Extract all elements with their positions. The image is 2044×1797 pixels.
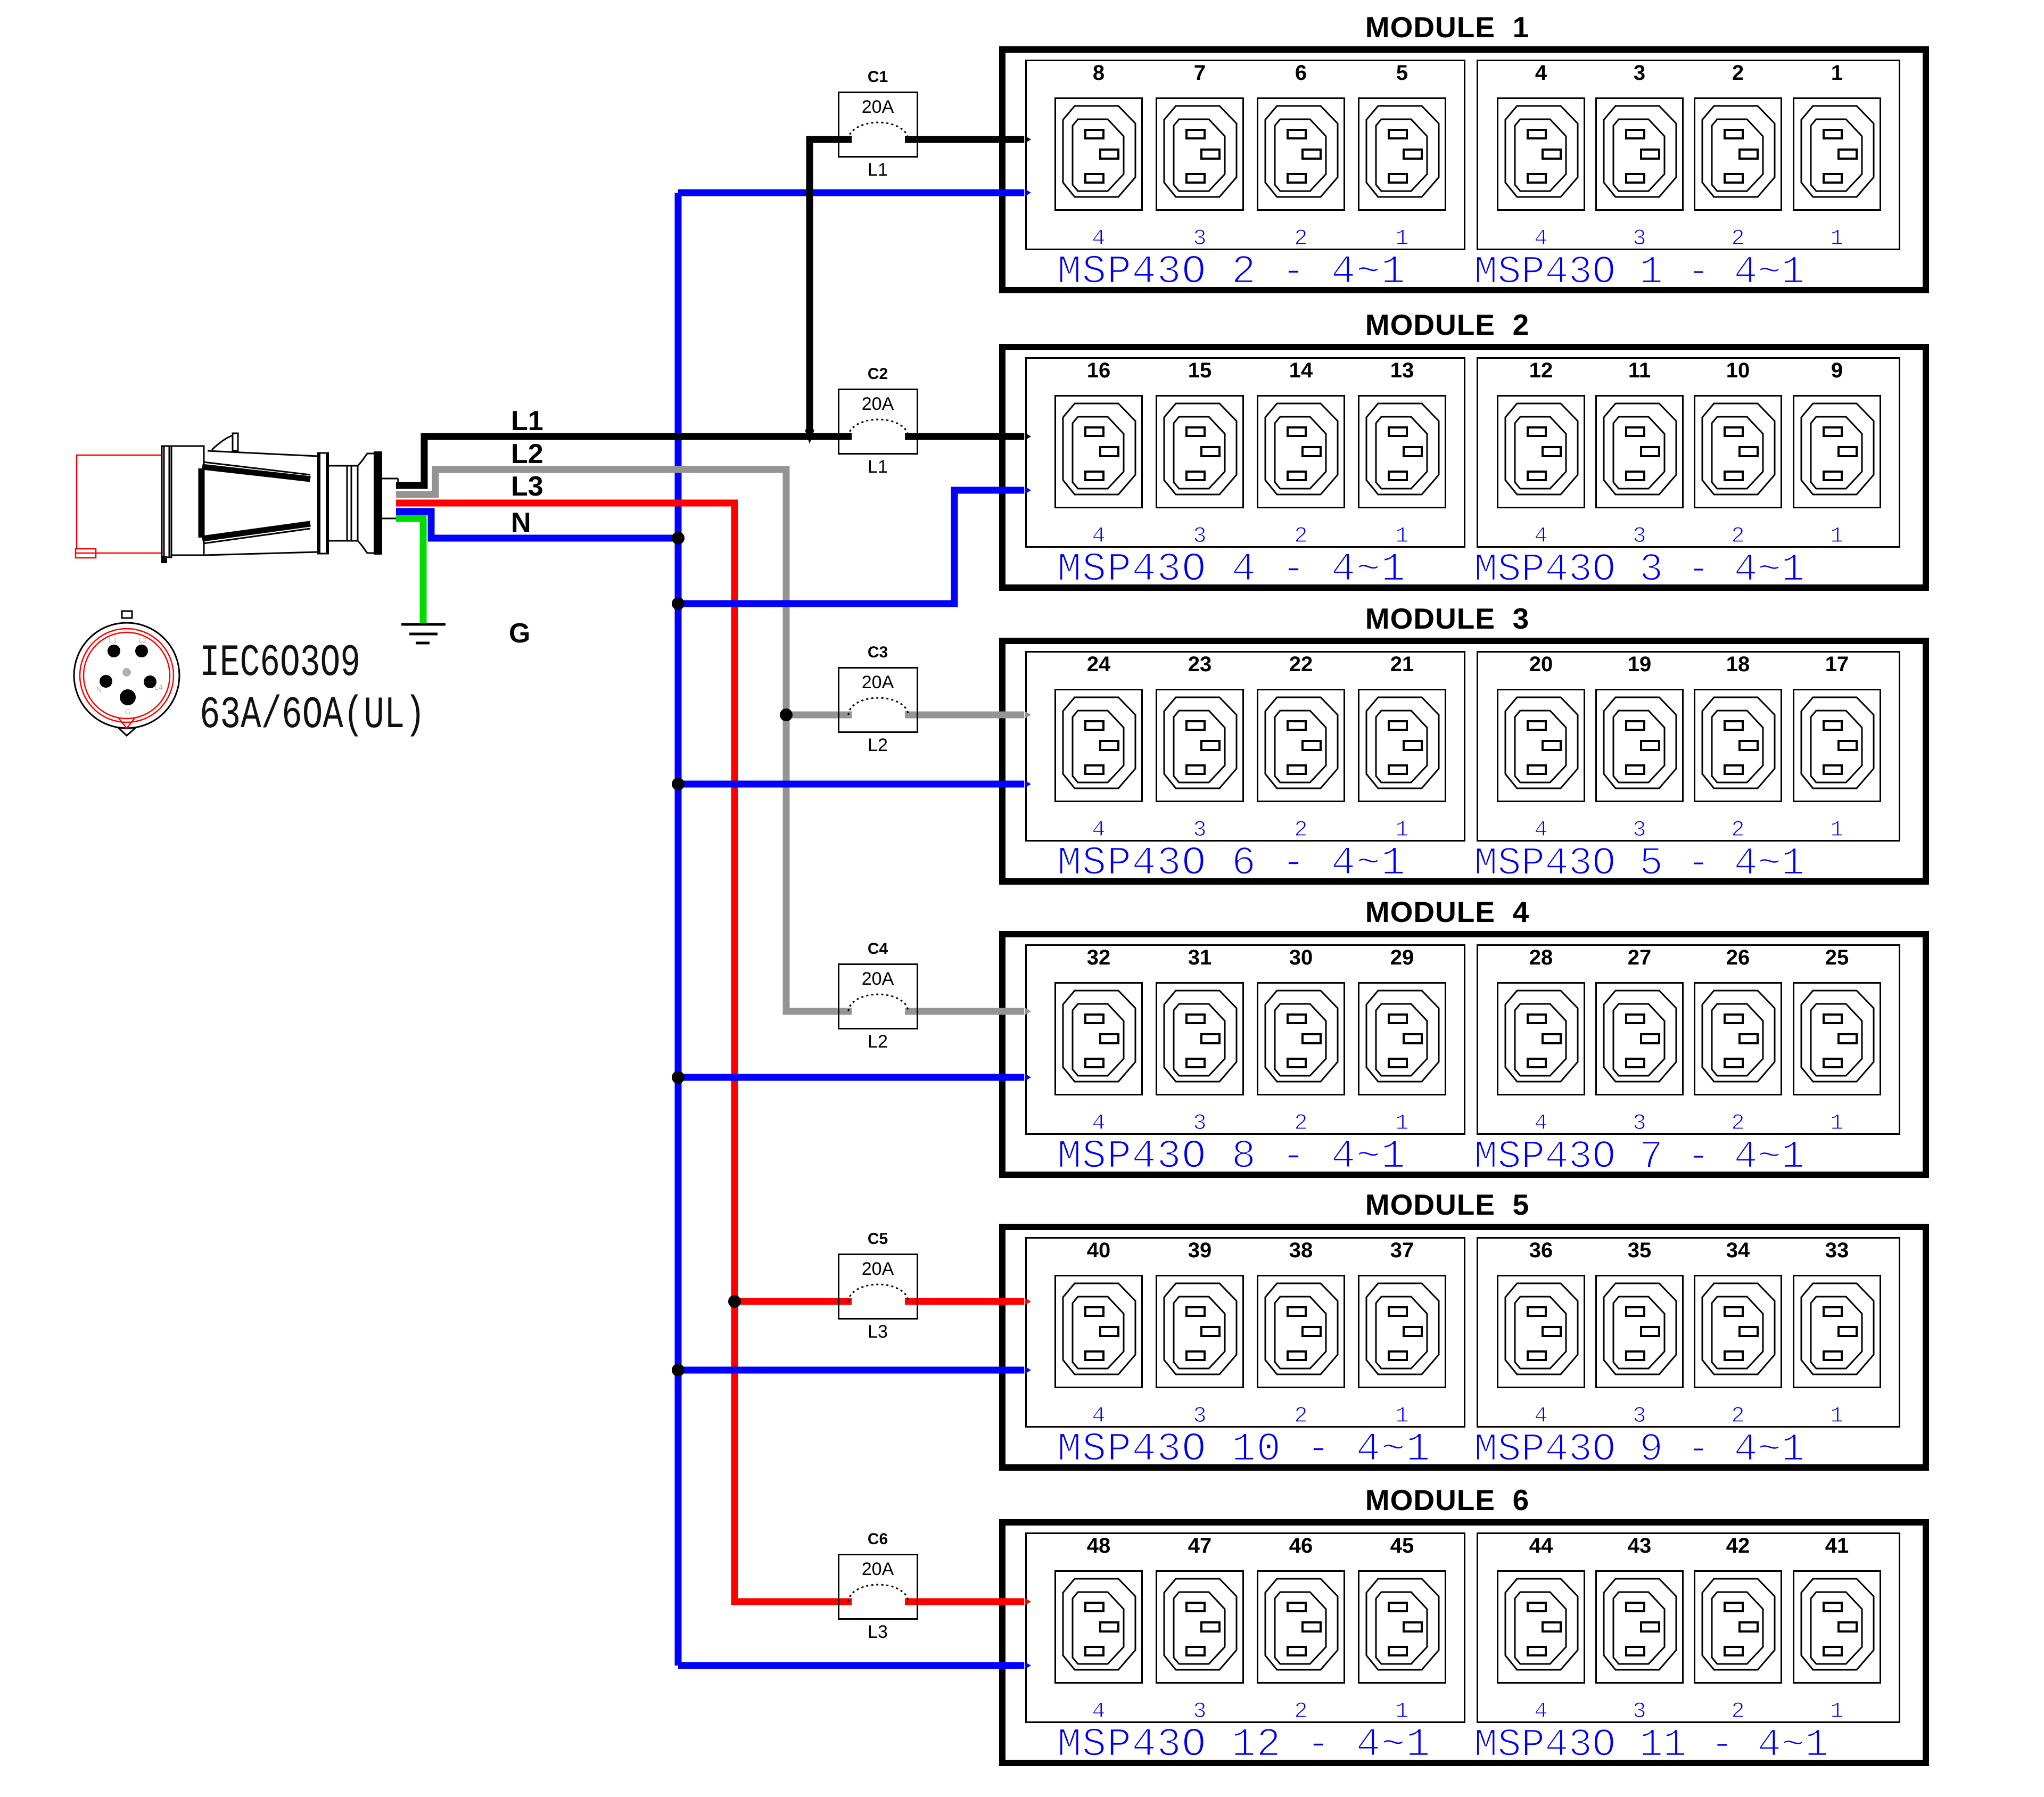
svg-text:20A: 20A	[862, 672, 894, 693]
svg-text:2: 2	[1731, 1699, 1744, 1724]
svg-text:27: 27	[1628, 946, 1652, 969]
svg-text:2: 2	[1731, 523, 1744, 549]
svg-text:22: 22	[1289, 653, 1313, 676]
svg-text:L4: L4	[154, 683, 163, 691]
svg-text:MSP43O 6 - 4~1: MSP43O 6 - 4~1	[1057, 840, 1406, 886]
svg-text:38: 38	[1289, 1239, 1313, 1262]
svg-text:9: 9	[1831, 359, 1843, 382]
svg-text:63A/6OA(UL): 63A/6OA(UL)	[200, 690, 425, 741]
svg-text:4: 4	[1534, 1403, 1547, 1429]
svg-text:2: 2	[1294, 817, 1307, 843]
svg-text:34: 34	[1726, 1239, 1750, 1262]
svg-text:G: G	[125, 707, 131, 716]
svg-text:24: 24	[1087, 653, 1111, 676]
svg-text:4: 4	[1534, 1699, 1547, 1724]
svg-text:3: 3	[1193, 817, 1206, 843]
svg-text:33: 33	[1825, 1239, 1849, 1262]
svg-text:32: 32	[1087, 946, 1111, 969]
svg-text:L1: L1	[109, 636, 117, 645]
svg-text:20A: 20A	[862, 97, 894, 117]
svg-text:L3: L3	[868, 1622, 888, 1642]
svg-text:47: 47	[1188, 1534, 1212, 1557]
svg-text:MSP43O 12 - 4~1: MSP43O 12 - 4~1	[1057, 1722, 1431, 1768]
svg-text:30: 30	[1289, 946, 1313, 969]
svg-text:L3: L3	[511, 471, 543, 502]
svg-text:4: 4	[1535, 61, 1547, 85]
svg-text:3: 3	[1633, 523, 1646, 549]
svg-text:7: 7	[1194, 61, 1206, 85]
svg-text:L1: L1	[868, 160, 888, 180]
svg-text:C2: C2	[868, 365, 888, 383]
svg-text:15: 15	[1188, 359, 1212, 382]
svg-text:1: 1	[1830, 523, 1843, 549]
svg-text:13: 13	[1390, 359, 1414, 382]
svg-text:23: 23	[1188, 653, 1212, 676]
svg-text:1: 1	[1395, 1403, 1408, 1429]
svg-text:MSP43O 5 - 4~1: MSP43O 5 - 4~1	[1474, 842, 1805, 886]
svg-text:4: 4	[1534, 1110, 1547, 1136]
svg-text:2: 2	[1294, 1110, 1307, 1136]
svg-text:MSP43O 11 - 4~1: MSP43O 11 - 4~1	[1474, 1723, 1828, 1768]
svg-text:3: 3	[1193, 226, 1206, 251]
svg-text:48: 48	[1087, 1534, 1111, 1557]
svg-text:3: 3	[1193, 1110, 1206, 1136]
svg-text:1: 1	[1830, 1403, 1843, 1429]
svg-text:2: 2	[1731, 226, 1744, 251]
svg-text:31: 31	[1188, 946, 1212, 969]
svg-text:MODULE 6: MODULE 6	[1365, 1483, 1529, 1516]
svg-text:3: 3	[1633, 1699, 1646, 1724]
svg-text:2: 2	[1294, 226, 1307, 251]
svg-text:35: 35	[1628, 1239, 1652, 1262]
svg-text:40: 40	[1087, 1239, 1111, 1262]
svg-text:18: 18	[1726, 653, 1750, 676]
svg-text:4: 4	[1092, 1699, 1105, 1724]
svg-text:L2: L2	[511, 439, 543, 469]
svg-text:MSP43O 3 - 4~1: MSP43O 3 - 4~1	[1474, 548, 1805, 592]
svg-text:3: 3	[1193, 1699, 1206, 1724]
svg-text:N: N	[511, 507, 531, 538]
svg-text:1: 1	[1395, 1110, 1408, 1136]
svg-text:20A: 20A	[862, 394, 894, 414]
svg-text:1: 1	[1831, 61, 1843, 85]
svg-text:MSP43O 1 - 4~1: MSP43O 1 - 4~1	[1474, 250, 1805, 295]
svg-text:20A: 20A	[862, 969, 894, 989]
svg-text:C1: C1	[868, 68, 888, 86]
svg-text:19: 19	[1628, 653, 1652, 676]
svg-text:C3: C3	[868, 644, 888, 661]
svg-text:1: 1	[1395, 817, 1408, 843]
svg-text:1: 1	[1395, 1699, 1408, 1724]
svg-text:MSP43O 4 - 4~1: MSP43O 4 - 4~1	[1057, 547, 1406, 592]
svg-text:1: 1	[1395, 226, 1408, 251]
svg-text:L3: L3	[868, 1322, 888, 1342]
svg-text:3: 3	[1633, 817, 1646, 843]
svg-text:MSP43O 9 - 4~1: MSP43O 9 - 4~1	[1474, 1428, 1805, 1472]
svg-text:46: 46	[1289, 1534, 1313, 1557]
svg-text:3: 3	[1634, 61, 1645, 85]
svg-text:45: 45	[1390, 1534, 1414, 1557]
svg-text:20: 20	[1529, 653, 1553, 676]
svg-text:3: 3	[1193, 523, 1206, 549]
svg-text:1: 1	[1830, 226, 1843, 251]
svg-text:3: 3	[1193, 1403, 1206, 1429]
svg-text:21: 21	[1390, 653, 1414, 676]
svg-text:4: 4	[1534, 817, 1547, 843]
svg-text:2: 2	[1294, 523, 1307, 549]
svg-text:L2: L2	[138, 636, 147, 645]
svg-text:MODULE 1: MODULE 1	[1365, 11, 1529, 44]
svg-text:14: 14	[1289, 359, 1313, 382]
svg-text:4: 4	[1534, 523, 1547, 549]
svg-text:2: 2	[1731, 1110, 1744, 1136]
svg-text:12: 12	[1529, 359, 1553, 382]
svg-text:3: 3	[1633, 226, 1646, 251]
svg-text:L2: L2	[868, 1032, 888, 1052]
svg-text:41: 41	[1825, 1534, 1849, 1557]
svg-text:4: 4	[1534, 226, 1547, 251]
svg-text:11: 11	[1628, 359, 1651, 382]
svg-text:N: N	[96, 685, 102, 694]
svg-text:20A: 20A	[862, 1559, 894, 1579]
svg-text:MODULE 5: MODULE 5	[1365, 1188, 1529, 1221]
svg-text:2: 2	[1731, 817, 1744, 843]
svg-text:1: 1	[1830, 1699, 1843, 1724]
svg-text:29: 29	[1390, 946, 1414, 969]
svg-text:20A: 20A	[862, 1259, 894, 1279]
svg-text:IEC6O3O9: IEC6O3O9	[200, 638, 360, 689]
svg-text:6: 6	[1295, 61, 1307, 85]
svg-text:3: 3	[1633, 1110, 1646, 1136]
svg-text:L1: L1	[511, 406, 543, 436]
svg-text:2: 2	[1732, 61, 1744, 85]
svg-text:25: 25	[1825, 946, 1849, 969]
svg-text:8: 8	[1093, 61, 1105, 85]
svg-text:MODULE 4: MODULE 4	[1365, 895, 1529, 928]
svg-text:L2: L2	[868, 735, 888, 755]
svg-text:44: 44	[1529, 1534, 1553, 1557]
svg-text:MSP43O 7 - 4~1: MSP43O 7 - 4~1	[1474, 1135, 1805, 1180]
svg-text:4: 4	[1092, 1110, 1105, 1136]
svg-text:MODULE 3: MODULE 3	[1365, 602, 1529, 635]
svg-text:C4: C4	[868, 940, 888, 958]
svg-text:5: 5	[1396, 61, 1408, 85]
svg-text:MSP43O 2 - 4~1: MSP43O 2 - 4~1	[1057, 249, 1406, 295]
svg-text:2: 2	[1294, 1403, 1307, 1429]
svg-text:C6: C6	[868, 1530, 888, 1548]
svg-text:43: 43	[1628, 1534, 1652, 1557]
svg-text:G: G	[509, 618, 530, 649]
svg-text:4: 4	[1092, 817, 1105, 843]
svg-text:4: 4	[1092, 523, 1105, 549]
svg-text:42: 42	[1726, 1534, 1750, 1557]
svg-text:1: 1	[1830, 1110, 1843, 1136]
svg-text:3: 3	[1633, 1403, 1646, 1429]
svg-text:MSP43O 8 - 4~1: MSP43O 8 - 4~1	[1057, 1134, 1406, 1180]
svg-text:1: 1	[1395, 523, 1408, 549]
svg-text:26: 26	[1726, 946, 1750, 969]
svg-text:28: 28	[1529, 946, 1553, 969]
svg-text:4: 4	[1092, 226, 1105, 251]
svg-text:17: 17	[1825, 653, 1849, 676]
svg-text:16: 16	[1087, 359, 1111, 382]
svg-text:39: 39	[1188, 1239, 1212, 1262]
svg-text:2: 2	[1731, 1403, 1744, 1429]
svg-text:37: 37	[1390, 1239, 1414, 1262]
svg-text:36: 36	[1529, 1239, 1553, 1262]
svg-text:MSP43O 10 - 4~1: MSP43O 10 - 4~1	[1057, 1427, 1431, 1472]
svg-text:2: 2	[1294, 1699, 1307, 1724]
svg-text:MODULE 2: MODULE 2	[1365, 308, 1529, 341]
svg-text:10: 10	[1726, 359, 1750, 382]
svg-text:L1: L1	[868, 457, 888, 477]
svg-text:4: 4	[1092, 1403, 1105, 1429]
svg-text:1: 1	[1830, 817, 1843, 843]
svg-text:C5: C5	[868, 1230, 888, 1248]
